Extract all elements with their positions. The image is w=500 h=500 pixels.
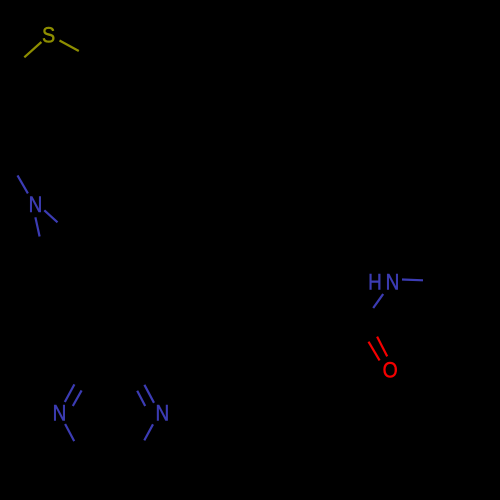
svg-text:N: N [155,401,169,426]
svg-text:H: H [368,270,382,295]
svg-text:S: S [42,24,55,48]
svg-text:O: O [383,358,398,382]
svg-text:N: N [29,192,43,217]
svg-text:N: N [386,270,400,295]
svg-text:N: N [53,401,67,426]
